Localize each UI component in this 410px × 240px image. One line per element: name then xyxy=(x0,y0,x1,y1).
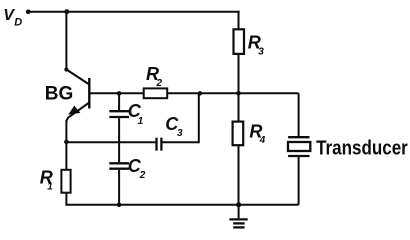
svg-text:1: 1 xyxy=(47,182,53,193)
node collector bend xyxy=(64,67,68,71)
wire R3 top xyxy=(238,11,240,30)
wire top rail xyxy=(28,11,239,13)
label C3 xyxy=(165,114,183,139)
junction R3-R4 xyxy=(236,91,241,96)
wire mid horizontal xyxy=(66,141,155,143)
junction bottom-C2 xyxy=(117,203,122,208)
junction top rail xyxy=(64,9,69,14)
wire base xyxy=(89,92,143,94)
label R1 xyxy=(40,167,54,192)
label R3 xyxy=(248,33,264,58)
wire collector drop xyxy=(65,12,67,70)
svg-text:BG: BG xyxy=(45,83,74,104)
svg-text:3: 3 xyxy=(258,46,264,57)
junction bottom-ground xyxy=(236,202,241,207)
junction base-C3 xyxy=(198,91,202,95)
label C2 xyxy=(128,156,146,181)
wire R3 bottom xyxy=(238,54,240,93)
resistor R3 xyxy=(234,29,245,54)
transistor BG xyxy=(66,70,89,123)
wire R4 top xyxy=(238,93,240,121)
label R4 xyxy=(249,121,265,146)
capacitor C3 xyxy=(157,93,199,150)
wire base right xyxy=(167,92,298,94)
svg-text:4: 4 xyxy=(259,135,266,146)
resistor R4 xyxy=(233,122,244,146)
capacitor C1 xyxy=(109,93,129,162)
svg-text:1: 1 xyxy=(138,116,144,127)
node VD terminal xyxy=(26,10,31,15)
label C1 xyxy=(128,101,144,127)
transducer X1 xyxy=(288,137,310,205)
svg-text:2: 2 xyxy=(156,78,163,89)
svg-text:2: 2 xyxy=(139,170,146,181)
wire transducer drop xyxy=(298,93,300,136)
capacitor C2 xyxy=(109,163,129,205)
label R2 xyxy=(146,64,163,89)
wire emitter drop xyxy=(65,121,67,170)
ground xyxy=(229,205,247,228)
wire R1 bottom xyxy=(65,193,67,205)
resistor R2 xyxy=(144,88,168,98)
resistor R1 xyxy=(61,170,70,193)
svg-text:3: 3 xyxy=(177,128,183,139)
junction emitter-mid xyxy=(64,140,69,145)
label VD xyxy=(3,7,22,28)
svg-text:D: D xyxy=(14,16,22,28)
svg-text:Transducer: Transducer xyxy=(316,138,408,160)
wire R4 bottom xyxy=(238,145,240,205)
wire bottom rail xyxy=(65,204,298,206)
junction base-C1 xyxy=(117,91,122,96)
